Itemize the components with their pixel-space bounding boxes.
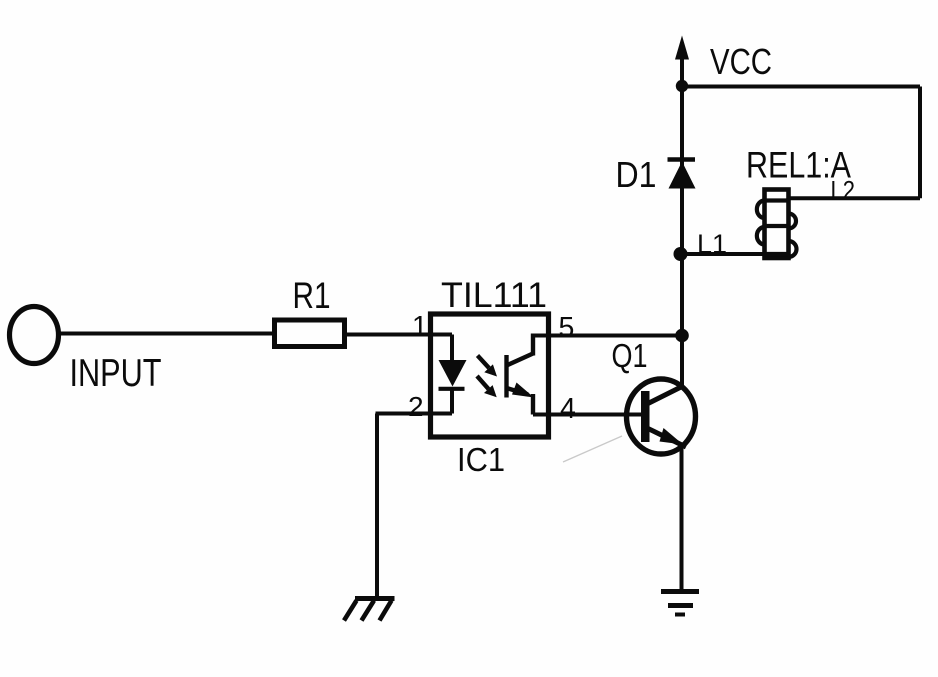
node dot L1 <box>674 247 688 261</box>
wire L1 to relay <box>681 252 767 256</box>
Q1 emitter line <box>648 429 686 448</box>
wire pin2 down to chassis ground <box>375 414 379 600</box>
transistor Q1 circle <box>627 379 696 454</box>
diode D1 cathode bar <box>668 157 696 162</box>
ground right bar 1 <box>661 589 699 594</box>
right vertical wire <box>918 87 922 199</box>
svg-text:L2: L2 <box>831 177 856 205</box>
relay coil right loop 2 <box>789 241 797 257</box>
relay coil right loop 1 <box>789 214 797 229</box>
relay REL1:A coil body <box>765 190 789 259</box>
svg-text:TIL111: TIL111 <box>441 276 547 315</box>
svg-text:4: 4 <box>560 393 576 425</box>
relay coil divider 1 <box>765 198 789 202</box>
LED anode lead <box>450 335 454 362</box>
wire pin5 to collector node <box>533 334 682 338</box>
photo transistor emitter arrowhead <box>512 383 534 398</box>
Q1 collector line <box>648 386 683 404</box>
svg-text:1: 1 <box>412 310 428 341</box>
svg-text:5: 5 <box>559 312 575 344</box>
svg-text:INPUT: INPUT <box>70 352 162 395</box>
resistor R1 <box>275 320 345 347</box>
relay coil left loop 1 <box>757 201 765 219</box>
svg-text:VCC: VCC <box>710 41 772 82</box>
chassis ground slash 2 <box>362 601 375 621</box>
svg-text:IC1: IC1 <box>457 441 505 478</box>
relay coil left loop 2 <box>757 227 765 245</box>
relay coil divider 3 <box>765 252 789 256</box>
faint scan scratch <box>563 436 622 462</box>
LED cathode lead <box>450 389 454 414</box>
wire pin2 <box>376 412 453 416</box>
chassis ground slash 3 <box>380 601 392 621</box>
chassis ground bar <box>355 596 395 601</box>
ground right bar 3 <box>675 613 685 617</box>
wire collector down to ground <box>680 447 684 591</box>
wire pin1 inside to LED anode <box>430 333 452 337</box>
input terminal circle <box>10 307 59 364</box>
Q1 base bar <box>641 391 650 442</box>
node dot VCC branch <box>676 80 688 92</box>
op-to box IC1 outline <box>431 314 549 437</box>
LED D triangle <box>439 360 467 387</box>
diode D1 triangle <box>669 162 696 189</box>
light arrow 2 <box>477 376 489 389</box>
photo transistor emitter lead <box>531 394 535 415</box>
wire input to R1 <box>60 332 273 336</box>
svg-text:Q1: Q1 <box>612 337 648 374</box>
top wire VCC branch <box>682 85 921 89</box>
wire R1 to IC1 pin 1 <box>347 333 432 337</box>
VCC arrow head <box>675 36 689 60</box>
wire to relay L2 <box>789 196 920 200</box>
svg-text:2: 2 <box>408 391 424 422</box>
chassis ground slash 1 <box>344 601 357 621</box>
photo transistor base <box>504 355 508 398</box>
relay coil divider 2 <box>765 224 789 228</box>
svg-text:D1: D1 <box>616 154 657 195</box>
svg-text:R1: R1 <box>293 275 331 316</box>
Q1 emitter arrowhead <box>660 428 684 445</box>
photo transistor emitter diagonal <box>507 388 529 395</box>
LED cathode bar <box>439 387 465 391</box>
ground right bar 2 <box>668 603 693 608</box>
light arrow 1 <box>478 356 490 369</box>
main vertical wire VCC to collector <box>680 50 684 387</box>
photo transistor collector lead <box>531 334 535 356</box>
photo transistor collector diagonal <box>507 354 534 366</box>
node dot pin5/collector <box>675 329 689 343</box>
wire pin4 to Q1 base <box>533 413 644 417</box>
